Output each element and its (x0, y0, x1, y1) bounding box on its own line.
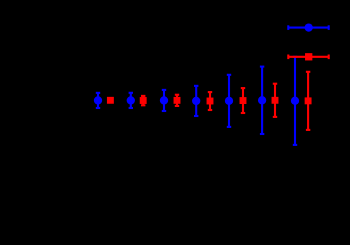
red errorbar series point 3 (174, 95, 181, 106)
red errorbar series point 2 (140, 96, 147, 105)
red errorbar series point 7 (305, 72, 312, 130)
red errorbar series point 5 (240, 88, 247, 113)
blue errorbar series point 6 (258, 67, 266, 134)
legend entry blue series (288, 23, 328, 31)
blue errorbar series point 1 (94, 93, 102, 108)
blue errorbar series point 2 (127, 93, 135, 108)
red errorbar series point 4 (207, 92, 214, 110)
red errorbar series point 1 (107, 97, 114, 104)
red errorbar series point 6 (272, 84, 279, 117)
blue errorbar series point 3 (160, 90, 168, 111)
legend entry red series (288, 53, 328, 60)
blue errorbar series point 7 (291, 57, 299, 145)
blue errorbar series point 4 (192, 86, 200, 116)
blue errorbar series point 5 (225, 75, 233, 127)
